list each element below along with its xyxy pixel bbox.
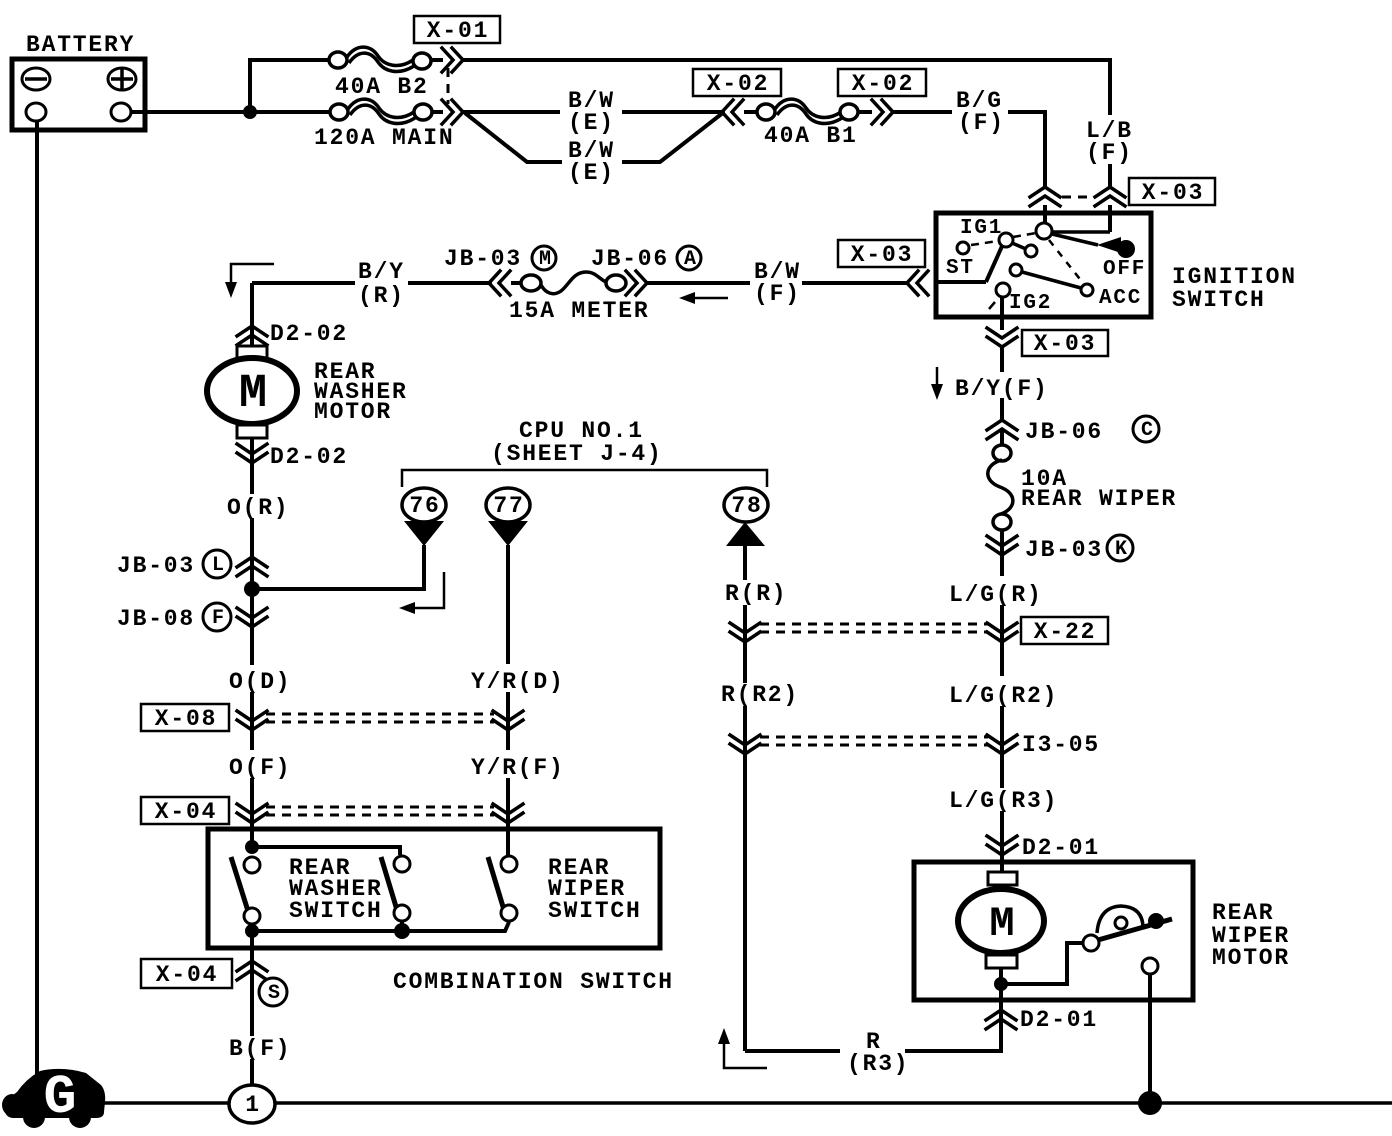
- svg-text:M: M: [539, 248, 551, 271]
- svg-text:JB-06: JB-06: [591, 246, 669, 272]
- wire fuse to JB-03 K: [1000, 530, 1004, 576]
- label R (R3): [847, 1029, 909, 1077]
- wire node B/W(E) lower branch: [465, 112, 724, 162]
- fuse 120A MAIN: [314, 99, 454, 151]
- svg-text:L/G(R): L/G(R): [949, 582, 1043, 608]
- svg-text:COMBINATION SWITCH: COMBINATION SWITCH: [393, 969, 674, 995]
- label B/W (E) upper: [568, 88, 615, 136]
- connector X-22 dashed link: [760, 624, 988, 632]
- connector X-22 label: [1021, 617, 1108, 645]
- wire battery positive to junction: [131, 110, 330, 114]
- wire top feed to ignition: [463, 58, 1110, 62]
- wire fuse MAIN to connector: [432, 110, 443, 114]
- svg-text:F: F: [212, 607, 224, 630]
- ignition switch internals: [936, 217, 1146, 315]
- rear wiper motor M2: [958, 872, 1044, 968]
- ground node 1: [229, 1085, 275, 1123]
- wire node B/W(E) upper branch: [463, 110, 725, 114]
- fuse 10A REAR WIPER: [988, 445, 1177, 530]
- svg-text:40A B2: 40A B2: [335, 74, 429, 100]
- connector I3-05 chevron right: [987, 735, 1017, 754]
- connector X-03 chevron bottom: [987, 328, 1017, 347]
- wire motor to park switch: [1001, 943, 1083, 984]
- wire 77 down: [506, 545, 510, 664]
- connector X-04 label: [141, 797, 229, 825]
- wire branch up to fuse B2: [250, 60, 330, 112]
- svg-text:(F): (F): [958, 110, 1005, 136]
- svg-text:OFF: OFF: [1103, 258, 1146, 281]
- svg-text:L/G(R3): L/G(R3): [949, 788, 1058, 814]
- connector X-02 chevron left: [722, 100, 743, 124]
- label B/W (F): [754, 259, 801, 307]
- svg-text:(E): (E): [568, 110, 615, 136]
- svg-text:76: 76: [409, 493, 440, 519]
- svg-text:X-04: X-04: [155, 799, 217, 825]
- svg-text:K: K: [1115, 538, 1127, 561]
- connector X-03 label bottom: [1022, 330, 1108, 357]
- wire O(R): [250, 518, 254, 665]
- svg-text:JB-03: JB-03: [444, 246, 522, 272]
- label B/W (E) lower: [568, 138, 615, 186]
- park switch contact: [1083, 935, 1099, 951]
- ground car symbol G: [2, 1066, 105, 1129]
- wire below washer motor: [250, 438, 254, 494]
- battery: [12, 32, 145, 130]
- wire 78 down R chain: [743, 546, 747, 1051]
- svg-text:JB-08: JB-08: [117, 606, 195, 632]
- label JB-08 F: [117, 603, 231, 632]
- junction battery feed: [243, 105, 257, 119]
- svg-text:78: 78: [731, 493, 762, 519]
- wire below combination switch: [250, 948, 254, 1036]
- label JB-03 M: [444, 246, 556, 272]
- connector X-04 chevrons: [237, 804, 523, 823]
- park switch pivot dot: [1148, 913, 1164, 929]
- svg-text:B/Y: B/Y: [358, 259, 405, 285]
- arrow continuation R(R3): [718, 1028, 767, 1068]
- junction motor common: [994, 977, 1008, 991]
- svg-text:IG2: IG2: [1009, 292, 1052, 315]
- svg-text:SWITCH: SWITCH: [289, 898, 383, 924]
- svg-text:I3-05: I3-05: [1022, 732, 1100, 758]
- connector X-03 label top: [1129, 178, 1215, 206]
- svg-text:(R3): (R3): [847, 1051, 909, 1077]
- ground junction dot: [1138, 1091, 1162, 1115]
- connector D2-02 chevron top: [237, 326, 267, 345]
- wire battery ground: [35, 121, 39, 1076]
- svg-text:Y/R(F): Y/R(F): [471, 755, 565, 781]
- wire below wiper motor: [999, 968, 1003, 1051]
- svg-text:B/Y(F): B/Y(F): [955, 376, 1049, 402]
- svg-text:D2-02: D2-02: [270, 444, 348, 470]
- svg-text:X-03: X-03: [851, 242, 913, 268]
- svg-text:IG1: IG1: [960, 217, 1003, 240]
- label CPU NO.1: [491, 418, 663, 467]
- svg-text:X-01: X-01: [427, 18, 489, 44]
- ground bus wire: [100, 1101, 1392, 1105]
- svg-text:77: 77: [493, 493, 524, 519]
- connector X-01 dashed link: [447, 68, 450, 104]
- label JB-06 C: [1025, 416, 1159, 445]
- wire into ignition box: [1045, 205, 1110, 232]
- label B/G (F): [956, 88, 1005, 136]
- connector X-02 label right: [838, 69, 926, 97]
- fuse 40A B1: [744, 99, 872, 149]
- svg-text:L: L: [212, 554, 224, 577]
- wire to fuse 10A: [1000, 429, 1004, 446]
- svg-text:120A MAIN: 120A MAIN: [314, 125, 454, 151]
- svg-text:40A B1: 40A B1: [764, 123, 858, 149]
- svg-text:(F): (F): [754, 281, 801, 307]
- connector JB-06 C chevron: [987, 420, 1017, 439]
- svg-text:(E): (E): [568, 160, 615, 186]
- svg-text:D2-02: D2-02: [270, 321, 348, 347]
- svg-text:MOTOR: MOTOR: [1212, 945, 1290, 971]
- fuse 40A B2: [329, 47, 431, 100]
- connector X-22 chevron left: [730, 623, 760, 642]
- svg-text:Y/R(D): Y/R(D): [471, 669, 565, 695]
- terminal 78: [724, 488, 768, 546]
- ignition switch box: [936, 213, 1297, 317]
- svg-text:A: A: [684, 248, 696, 271]
- wire L/B(F): [1108, 58, 1112, 186]
- park switch blade: [1098, 919, 1172, 940]
- connector I3-05 dashed link: [760, 737, 988, 745]
- park switch cam: [1097, 906, 1143, 933]
- wire R(R3): [745, 1049, 1003, 1053]
- svg-text:(F): (F): [1086, 140, 1133, 166]
- svg-text:X-08: X-08: [155, 706, 217, 732]
- svg-text:C: C: [1141, 419, 1153, 442]
- svg-text:G: G: [43, 1066, 76, 1129]
- wire B(F) to ground node: [250, 1059, 254, 1085]
- connector JB-08 F chevron: [237, 608, 267, 627]
- svg-text:1: 1: [245, 1092, 261, 1118]
- wire washer motor feed: [250, 283, 254, 348]
- svg-text:M: M: [989, 900, 1014, 948]
- terminal 76: [402, 488, 446, 546]
- fuse 15A METER: [509, 272, 649, 324]
- connector JB-06 A chevron: [626, 271, 647, 295]
- svg-text:SWITCH: SWITCH: [1172, 287, 1266, 313]
- wire switch commons: [245, 921, 509, 948]
- arrow continuation B/Y(F): [931, 367, 943, 400]
- svg-text:X-22: X-22: [1034, 619, 1096, 645]
- connector D2-02 chevron bottom: [237, 444, 267, 463]
- svg-text:(R): (R): [358, 283, 405, 309]
- rear wiper switch: [488, 855, 642, 924]
- svg-text:R(R): R(R): [725, 581, 787, 607]
- connector X-22 chevron right: [987, 623, 1017, 642]
- park switch open contact: [1142, 958, 1158, 974]
- wire fuse B2 to connector: [431, 58, 443, 62]
- wires above X-04: [252, 778, 508, 858]
- svg-text:S: S: [268, 982, 280, 1005]
- connector X-01 label: [414, 16, 500, 44]
- wire B/Y(F): [1000, 346, 1004, 372]
- connector X-08 chevrons: [237, 711, 523, 730]
- arrow continuation B/Y(R): [225, 264, 274, 298]
- svg-text:JB-06: JB-06: [1025, 419, 1103, 445]
- svg-text:D2-01: D2-01: [1022, 835, 1100, 861]
- label JB-03 K: [1025, 535, 1133, 563]
- connector X-01 chevron bottom: [442, 100, 463, 124]
- rear washer switch: [231, 840, 410, 924]
- svg-text:15A METER: 15A METER: [509, 298, 649, 324]
- wire L/G(R3) to motor: [1000, 811, 1004, 876]
- junction node washer branch: [244, 581, 260, 597]
- rear wiper motor box: [914, 862, 1290, 1000]
- arrow flow left: [679, 292, 728, 304]
- wires above X-08: [252, 692, 508, 750]
- svg-text:O(D): O(D): [229, 669, 291, 695]
- pin S: [259, 978, 287, 1006]
- connector X-03 chevron left: [907, 271, 928, 295]
- wire B/G(F): [893, 112, 1045, 186]
- connector D2-01 chevron top: [987, 836, 1017, 855]
- connector X-03 label left: [838, 240, 925, 268]
- svg-text:ST: ST: [946, 257, 975, 280]
- connector I3-05 chevron left: [730, 735, 760, 754]
- connector X-01 chevron top: [442, 48, 463, 72]
- label JB-06 A: [591, 246, 701, 272]
- svg-text:X-03: X-03: [1034, 331, 1096, 357]
- svg-text:JB-03: JB-03: [117, 553, 195, 579]
- label L/B (F): [1086, 118, 1133, 166]
- svg-text:R(R2): R(R2): [721, 682, 799, 708]
- wire park switch to ground: [1148, 974, 1152, 1103]
- terminal 77: [486, 488, 530, 546]
- svg-text:O(R): O(R): [227, 495, 289, 521]
- svg-text:JB-03: JB-03: [1025, 537, 1103, 563]
- wire B/Y(R) horizontal: [252, 281, 492, 285]
- wire L/G(R): [1000, 605, 1004, 676]
- wire IG2 down: [1000, 297, 1004, 330]
- svg-text:X-04: X-04: [156, 962, 218, 988]
- connector JB-03 M chevron: [489, 271, 510, 295]
- connector D2-01 chevron bottom: [986, 1010, 1016, 1029]
- svg-text:B(F): B(F): [229, 1036, 291, 1062]
- connector X-02 chevron right: [872, 100, 893, 124]
- arrow continuation at junction: [399, 572, 444, 614]
- wire L/G(R2): [1000, 706, 1004, 788]
- svg-text:ACC: ACC: [1099, 287, 1142, 310]
- svg-text:SWITCH: SWITCH: [548, 898, 642, 924]
- bracket CPU: [402, 470, 767, 487]
- svg-text:(SHEET J-4): (SHEET J-4): [491, 441, 663, 467]
- connector X-08 label: [141, 704, 229, 732]
- connector X-04 chevron bottom: [237, 961, 267, 980]
- combination switch box: [208, 829, 674, 995]
- svg-text:REAR WIPER: REAR WIPER: [1021, 486, 1177, 512]
- svg-text:M: M: [239, 368, 267, 421]
- wire B/W(F): [647, 281, 908, 285]
- wire junction to terminal 76: [252, 545, 424, 589]
- svg-text:X-02: X-02: [707, 71, 769, 97]
- connector X-02 label left: [693, 69, 781, 97]
- svg-text:O(F): O(F): [229, 755, 291, 781]
- connector X-04 label bottom: [141, 959, 232, 988]
- rear washer motor M1: [207, 346, 408, 438]
- svg-text:L/G(R2): L/G(R2): [949, 683, 1058, 709]
- svg-text:BATTERY: BATTERY: [26, 32, 135, 58]
- svg-text:D2-01: D2-01: [1020, 1007, 1098, 1033]
- svg-text:MOTOR: MOTOR: [314, 399, 392, 425]
- svg-text:X-03: X-03: [1142, 180, 1204, 206]
- connector JB-03 K chevron: [987, 536, 1017, 555]
- connector JB-03 L chevron: [237, 557, 267, 576]
- svg-text:X-02: X-02: [852, 71, 914, 97]
- label JB-03 L: [117, 550, 231, 579]
- label B/Y (R): [358, 259, 405, 309]
- connector X-03 chevrons top: [1030, 187, 1125, 206]
